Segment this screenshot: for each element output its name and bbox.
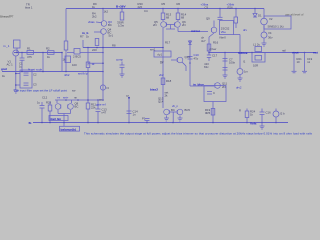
resistor R26 [234,17,238,23]
label C14 [133,110,139,117]
note top-left [0,14,14,18]
svg-text:Vdrive: Vdrive [238,51,248,55]
transistor Q11 [215,83,221,89]
wire long vertical x88 [87,48,89,66]
resistor R12 [120,12,124,20]
label R30 above rail [138,2,144,9]
label Q11 [222,82,228,90]
svg-text:R18: R18 [166,79,172,83]
wire top supply rail [66,8,264,10]
transistor Q13 [164,109,170,115]
wire C5 legs [121,62,123,66]
wire V4 to ground [263,38,265,43]
wire Q8 collector [71,100,73,103]
resistor R18 [161,78,165,85]
svg-text:R: R [239,109,241,113]
label left of R24 [239,109,241,113]
label below rail x145 [144,9,148,13]
svg-text:vbias: vbias [88,20,95,24]
wire R26 to box [235,23,237,28]
wire Q4 down to column [102,35,104,101]
wire Q6 collector down [177,28,179,32]
resistor R24 [245,111,249,118]
label Q5 [153,20,158,27]
wire Q7 collector [56,100,58,103]
wire bottom bus y122 [33,122,288,124]
transistor Q9 [211,27,217,33]
label R6 [72,63,77,67]
wire C13 column [97,100,99,109]
svg-text:C17: C17 [212,54,218,58]
wire I1 to ground [239,75,241,78]
net label +36V on rail [116,4,126,8]
diode led top [188,41,191,44]
svg-text:This schematic simulates the o: This schematic simulates the output stag… [84,132,313,136]
source I1 circle [237,69,243,75]
svg-text:nfb2: nfb2 [64,73,70,77]
svg-text:driver: driver [210,47,217,51]
net label vq highlighted [150,88,158,92]
wire C6 to box [219,19,221,22]
ground C8 [223,75,228,78]
net label right of box [243,28,247,32]
capacitor C1 [20,57,25,59]
label q mirror rows [158,97,164,104]
svg-text:36v: 36v [268,36,273,40]
wire rail stub x255 [254,9,256,14]
svg-text:rail: rail [282,49,286,53]
svg-text:V4: V4 [268,31,272,35]
label in K1 [158,53,163,57]
wire R23 legs [49,102,51,106]
svg-text:R7: R7 [80,35,84,39]
net label right [236,86,242,90]
svg-text:fb: fb [29,121,32,125]
svg-text:in_blue: in_blue [193,82,204,86]
label Q13 value [171,108,175,112]
label Q14 value [185,108,191,112]
label r small [2,74,6,78]
junctions y47 [87,47,104,49]
wire box to bus drop x240 [234,34,241,36]
net label vb1 [88,20,95,24]
svg-text:68: 68 [166,16,170,20]
label C17 [204,54,218,70]
svg-text:5v1: 5v1 [109,34,114,38]
box bias network [220,21,234,35]
label R2 [46,47,51,60]
svg-text:C16: C16 [266,111,272,115]
svg-text:1n: 1n [133,113,137,117]
label C12 value [37,101,41,105]
svg-text:The input filter caps set the: The input filter caps set the LF rolloff… [14,89,67,93]
resistor R16 [207,44,211,51]
label sw [72,89,76,93]
svg-text:R17: R17 [165,41,171,45]
svg-text:C12: C12 [42,96,48,100]
label R7 [80,35,90,39]
resistor R20 body [255,56,262,61]
wire C1 leg [21,53,23,59]
svg-text:10R: 10R [253,64,258,68]
wire cap box stubs [16,73,20,75]
svg-text:R8: R8 [112,44,116,48]
capacitor C17 below bus [207,54,211,56]
resistor R1 [27,51,34,55]
ground Q14 [178,118,183,121]
wire mirror2 base tie [169,111,177,113]
wire left rail drop x66 [65,9,67,42]
label R23 [46,101,52,105]
junction y52 at x103 [102,52,104,54]
svg-text:n1: n1 [307,60,311,64]
wire rail corner x264 [263,9,265,19]
svg-text:bias 1: bias 1 [25,6,33,10]
svg-text:drv: drv [243,28,247,32]
svg-text:1u: 1u [19,64,23,68]
net label supply blue [0,0,1,1]
net label on x163 [159,73,164,77]
label R14 [181,13,187,20]
wire Q4 emitter left leg [82,40,84,48]
svg-text:bias2: bias2 [150,88,158,92]
label C7 [229,58,236,65]
svg-text:n47: n47 [102,111,107,115]
net label stub x122 [116,58,123,62]
resistor R11 [86,103,90,109]
wire rail stub x178 [177,9,179,14]
svg-text:1m: 1m [244,70,249,74]
net label tail highlighted [49,116,68,121]
label Q1 values [63,55,82,62]
capacitor C6 [218,16,223,18]
svg-text:R6: R6 [177,2,181,6]
ground zobel [292,71,297,73]
net label fb left [29,121,32,125]
net label in [3,44,10,48]
net label vdrive highlighted [238,51,248,55]
wire x66 lower [65,50,67,72]
label Q3 [108,20,112,27]
wire stub below bus [63,122,65,126]
svg-text:1u: 1u [37,101,41,105]
svg-text:Vbe: Vbe [221,30,226,34]
svg-text:C2: C2 [33,73,37,77]
svg-text:gnd: gnd [1,67,7,71]
box output cell [204,86,226,102]
ground sources [262,43,267,46]
wire mirror base tie [167,24,175,26]
svg-text:4v7: 4v7 [201,39,206,43]
wire x88 segment 2 [87,68,89,104]
resistor R23 [48,105,52,111]
wire ground stub x262 [261,123,263,127]
label L1 [253,43,260,47]
svg-text:SINE(0 1 1k): SINE(0 1 1k) [268,25,284,29]
wire source to ground [15,56,17,90]
source V1 circle [13,50,19,56]
label R19 [205,108,211,115]
label R11 [91,103,96,110]
svg-text:100n: 100n [229,61,236,65]
label R13 [166,13,172,20]
note top-right [285,13,304,17]
wire rail drop x220 [219,9,221,18]
wire drop below bus x225 [224,53,226,76]
capacitor C5 [120,64,125,66]
wire mirror out y31 [178,31,208,33]
wire Q9 emitter to R16 column [209,33,214,37]
label C11 [213,91,215,95]
wire mid bus y47 [83,47,163,49]
resistor R6 box [65,56,71,63]
wire from source box [16,48,18,53]
net label vb_n [172,104,179,108]
junctions bottom bus [41,122,277,124]
svg-text:comp: comp [116,58,123,62]
svg-text:Vofs: Vofs [250,122,257,126]
diode D1 [253,14,257,18]
label R10 value [92,62,96,66]
svg-text:V2: V2 [269,17,273,21]
wire R14 to Q6 [177,20,179,22]
net label vg [96,98,106,107]
svg-text:220: 220 [92,48,97,52]
note sentence mid-left [14,89,67,93]
label under box [210,35,226,51]
capacitor C2b bars [24,82,29,84]
svg-text:1k2: 1k2 [104,9,109,13]
label R1 [27,47,32,60]
junctions output bus [208,52,305,54]
net label VIN highlighted [82,31,88,35]
label x163 column rows [160,41,171,65]
svg-text:47p: 47p [194,57,199,61]
label TR1 [25,3,33,10]
net label nfb2 [64,73,70,77]
inductor L1 above bus [255,47,262,52]
label C2b [33,83,37,87]
transistor Q8 [68,104,74,110]
label Q9 above [206,17,210,21]
transistor Q10 [177,57,183,63]
label Q10 [185,55,191,59]
wire Q13 emitter [166,116,168,119]
label near K1 [150,48,164,64]
source V4 circle [261,32,267,38]
label series R value [282,49,286,53]
svg-text:use alt level of: use alt level of [285,13,304,17]
wire series box in y52 path [67,52,74,54]
source box V3 [14,40,21,48]
source V2 circle [261,18,268,25]
label I1 [243,60,249,74]
ground I1 [238,78,243,81]
source I3 on x103 [100,85,105,90]
svg-text:68: 68 [181,16,185,20]
svg-text:nn: nn [74,96,78,100]
label C19 [307,57,313,64]
svg-text:R1: R1 [27,47,31,51]
wire Q10 emitter [182,62,186,66]
wire LTP tail [57,110,59,114]
ground bottom [260,126,265,129]
svg-text:0R5: 0R5 [205,111,211,115]
net label below bus [60,126,80,131]
transistor Q14 [177,109,183,115]
svg-text:2k2: 2k2 [92,15,97,19]
wire rail stub x122 [121,9,123,13]
wire C15 leg [146,121,148,123]
capacitor C10 [188,56,193,58]
svg-text:B+36V: B+36V [116,4,126,8]
svg-text:Q10: Q10 [185,55,191,59]
svg-text:R23: R23 [46,101,52,105]
svg-text:itail 4m: itail 4m [51,117,62,121]
resistor R13 [161,13,165,20]
label V1 [7,60,14,67]
net label vcc3 above rail [227,2,235,9]
label above rail x163 [162,2,166,6]
svg-text:BC5: BC5 [185,108,191,112]
junction cap stubs [15,73,17,86]
svg-text:C4: C4 [144,9,148,13]
svg-text:mirror: mirror [191,29,201,33]
svg-text:C3: C3 [33,83,37,87]
label I3 [107,86,110,90]
capacitor C13 [96,108,101,110]
label R18 value [165,79,172,98]
wire C17 legs [208,53,210,56]
svg-text:10: 10 [297,60,301,64]
svg-text:BC: BC [75,105,79,109]
transistor Q5 [161,22,167,28]
svg-text:63v: 63v [204,65,209,69]
wire C12 legs [41,102,43,106]
svg-text:set fb lp: set fb lp [78,72,88,76]
capacitor C12 [40,105,45,107]
svg-text:rly1: rly1 [158,53,163,57]
label V4 [268,31,273,40]
wire rail drop x103 [102,9,104,21]
wire drop below bus x241 [239,53,241,69]
label x129 [126,94,129,98]
source I2 circle [273,111,279,117]
svg-text:AC 1: AC 1 [7,63,14,67]
wire y52 to vas column [80,52,103,54]
svg-text:L1 2u: L1 2u [253,43,260,47]
svg-text:R16: R16 [213,41,219,45]
net label vset highlighted [250,122,257,126]
svg-text:BC: BC [108,23,112,27]
wire V2 to V4 [263,25,265,32]
transistor Q4 [101,29,107,35]
resistor R10 [86,62,90,68]
transistor Q3 [101,21,107,27]
label C1 [19,62,23,69]
wire Q5 collector down long [162,28,164,108]
junction C10 lower [189,62,191,64]
ground of source V1 [13,90,18,93]
svg-text:R26: R26 [228,5,234,9]
label R16 [201,36,219,45]
net label casc highlighted [191,29,201,33]
wire feedback bus y71.5 [2,71,103,73]
svg-text:gate ref: gate ref [96,103,106,107]
svg-text:D1: D1 [258,14,262,18]
wire Q14 emitter [179,116,181,119]
svg-text:2N: 2N [153,23,157,27]
transistor Q6 [175,22,181,28]
svg-text:+e: +e [57,96,61,100]
svg-text:1/2w: 1/2w [118,24,125,28]
net label below [78,72,88,76]
svg-text:vb2: vb2 [159,73,164,77]
resistor R19 [211,109,215,116]
component box K1 [154,51,171,57]
resistor R3 [64,41,68,50]
source V2 box [264,16,291,29]
svg-text:I2 b: I2 b [280,112,285,116]
svg-text:2N: 2N [182,23,186,27]
svg-text:vout: vout [292,51,299,55]
resistor R7 hang [95,39,99,46]
wire R2 node drop [42,53,44,72]
ground C5 [120,74,125,77]
wire vb1 stub [96,21,101,24]
svg-text:C9: C9 [205,5,209,9]
wire column x129 [128,98,130,123]
note sentence bottom [84,132,313,136]
capacitor C7 [223,58,228,60]
label C10 [194,53,200,61]
net label vcc2 above rail [201,2,209,9]
svg-text:Enhanced TPT: Enhanced TPT [0,14,14,18]
wire input line y52 [14,52,62,54]
net label invas highlighted [193,82,204,86]
wire R13 to Q5 [162,20,164,22]
svg-text:475: 475 [27,55,32,59]
wire I2 legs [275,109,277,112]
wire LTP top y100 [55,99,103,101]
wire vas out y86 [190,85,214,87]
svg-text:Q14: Q14 [158,100,164,104]
junction x163 y47 [162,47,164,49]
label C16 [266,111,272,115]
wire C16 legs [261,109,263,113]
label in box [221,27,230,35]
capacitor C2 electrolytic box [20,70,32,88]
wire stub y63 [88,62,103,64]
svg-text:R5: R5 [162,2,166,6]
svg-text:out: out [313,51,318,55]
label row above LTP [42,96,78,100]
label V2 [268,17,284,29]
ground Q13 [164,118,169,121]
svg-text:ce: ce [99,98,102,102]
label R9 above rail [92,2,97,9]
wire x88 segment 3 [87,109,89,122]
label R21 [297,57,303,64]
label under y47 [92,44,116,53]
wire Q10 base stub [171,59,177,61]
junction input nodes [16,52,63,54]
capacitor C16 [260,111,265,113]
junctions on feedback bus [21,71,104,73]
capacitor C15 [145,118,150,120]
wire Q1 emitter drop [61,53,63,72]
node mark x129 [128,97,130,99]
